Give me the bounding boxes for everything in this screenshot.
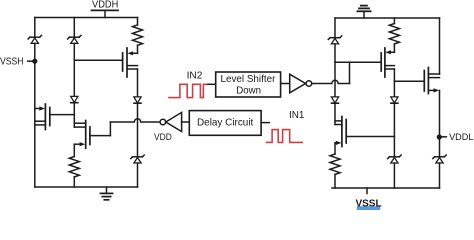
svg-text:VDDH: VDDH: [92, 0, 118, 11]
svg-text:Delay Circuit: Delay Circuit: [197, 118, 253, 129]
svg-text:IN2: IN2: [187, 71, 203, 82]
svg-text:VSSL: VSSL: [355, 199, 381, 210]
svg-text:Down: Down: [236, 85, 261, 96]
svg-text:Level Shifter: Level Shifter: [221, 74, 276, 85]
svg-text:VDD: VDD: [154, 132, 172, 143]
svg-text:VDDL: VDDL: [449, 132, 473, 143]
svg-text:IN1: IN1: [289, 110, 305, 121]
svg-text:VSSH: VSSH: [0, 56, 24, 67]
